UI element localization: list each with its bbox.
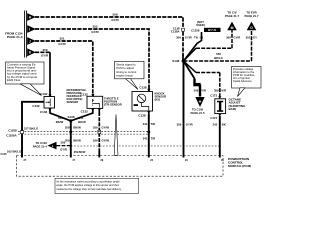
off-page arrow L to page 21-4 bbox=[33, 141, 57, 149]
connector square on TP wire bbox=[98, 130, 101, 133]
wire label 341 T/R lower bbox=[143, 137, 155, 141]
svg-text:BK/W: BK/W bbox=[73, 126, 81, 130]
svg-text:PAGE 21-7: PAGE 21-7 bbox=[244, 14, 259, 18]
svg-text:PAGE 21-5: PAGE 21-5 bbox=[190, 111, 205, 115]
pin wedge TP top bbox=[91, 94, 94, 97]
pointer from TP note to PCM bbox=[114, 115, 118, 156]
svg-text:T/R: T/R bbox=[150, 122, 155, 126]
wire label 359 GY/W above bbox=[93, 126, 109, 130]
svg-text:engine knock.: engine knock. bbox=[116, 74, 134, 78]
svg-text:S138: S138 bbox=[172, 59, 179, 63]
svg-text:C1258: C1258 bbox=[191, 28, 200, 32]
octane adjust shorting bar box bbox=[215, 96, 226, 116]
svg-text:BK/W: BK/W bbox=[56, 120, 64, 124]
in-line connector C1258 dashed rows bbox=[18, 131, 149, 134]
node wire down to PCM bbox=[183, 61, 185, 158]
svg-text:BK/W: BK/W bbox=[78, 120, 86, 124]
callout note knock sensor description bbox=[115, 61, 145, 89]
connector C132 labels (DPFE) bbox=[32, 92, 47, 114]
knock sensor pins bbox=[148, 89, 150, 114]
svg-text:angle, the PCM applies voltage: angle, the PCM applies voltage to this s… bbox=[56, 183, 119, 187]
connector pin K bbox=[27, 48, 36, 56]
splice S138 node bbox=[172, 59, 185, 63]
knock sensor box bbox=[132, 92, 153, 112]
label POWERTRAIN CONTROL MODULE (PCM) bbox=[228, 157, 251, 168]
svg-text:L: L bbox=[52, 144, 54, 148]
connector pin I bbox=[27, 25, 36, 33]
in-line connector C138 on wire 559 bbox=[171, 26, 185, 33]
svg-text:TN: TN bbox=[194, 35, 198, 39]
pin wedge TP bottom left bbox=[91, 109, 94, 112]
wire label 351 GY/R bbox=[58, 37, 66, 47]
svg-text:GY/R: GY/R bbox=[60, 148, 67, 152]
svg-text:BAR): BAR) bbox=[229, 107, 237, 111]
label OCTANE ADJUST (SHORTING BAR) bbox=[229, 97, 246, 111]
svg-text:C138: C138 bbox=[139, 86, 147, 90]
junction dot on KS wire bbox=[147, 131, 150, 134]
pin wedge DPFE top bbox=[48, 94, 51, 97]
svg-text:C132: C132 bbox=[40, 110, 48, 114]
svg-text:C138A: C138A bbox=[171, 30, 180, 34]
svg-text:C132: C132 bbox=[81, 93, 89, 97]
wire 352 to knock sensor bbox=[35, 29, 149, 92]
wire label 559 BK/LG on node bus bbox=[214, 52, 223, 60]
svg-text:C173: C173 bbox=[210, 93, 217, 97]
off-page arrow M to C/V bbox=[225, 11, 240, 31]
svg-text:162 BK/LG: 162 BK/LG bbox=[7, 150, 21, 154]
wire label 359 GY/W below bbox=[93, 138, 109, 142]
svg-text:242: 242 bbox=[213, 123, 218, 127]
pin wedge DPFE bottom bbox=[48, 108, 51, 111]
callout note octane adjust description bbox=[232, 67, 262, 97]
wire label 359 GY/R at arrow L bbox=[60, 140, 67, 151]
DPFE sensor box bbox=[44, 97, 55, 109]
wire label 541 BK/W right bbox=[78, 116, 86, 124]
svg-text:GY/R: GY/R bbox=[91, 30, 99, 34]
octane wire to PCM bbox=[219, 116, 221, 158]
svg-text:359: 359 bbox=[93, 126, 98, 130]
wire label 541 BK/W left bbox=[56, 116, 64, 124]
svg-text:359: 359 bbox=[60, 140, 65, 144]
DPFE bottom pin wire bbox=[50, 108, 71, 121]
wire 351 to TP sensor bbox=[35, 41, 93, 96]
wire 359 to DPFE sensor bbox=[35, 52, 50, 96]
connector pin H bbox=[27, 13, 36, 21]
connector C138 labels (KS) bbox=[138, 86, 147, 118]
black reference box bbox=[204, 28, 221, 32]
sig rtn dashed wire across bbox=[71, 145, 220, 147]
svg-text:S136: S136 bbox=[67, 115, 74, 119]
TP right pin wire to PCM bbox=[98, 108, 100, 157]
knock sensor wire to PCM bbox=[148, 114, 150, 158]
branch wire to arrow M bbox=[184, 30, 233, 61]
wire label 359 BK/W above bbox=[65, 126, 81, 130]
svg-text:C1258: C1258 bbox=[8, 128, 17, 132]
svg-text:J: J bbox=[29, 39, 31, 43]
wire label 359 GY/R bbox=[41, 48, 49, 58]
connector C173 labels bbox=[210, 93, 217, 119]
junction dot on C1258 row bbox=[69, 131, 72, 134]
svg-text:359: 359 bbox=[42, 48, 47, 52]
arrow L wire to splice bbox=[57, 145, 71, 147]
connector bar from C134 bbox=[25, 11, 27, 58]
svg-text:359: 359 bbox=[65, 126, 70, 130]
S136 wire down to PCM bbox=[70, 121, 72, 158]
svg-text:341: 341 bbox=[143, 122, 148, 126]
svg-text:GY/R: GY/R bbox=[233, 36, 240, 40]
svg-text:GY/W: GY/W bbox=[102, 126, 110, 130]
pin wedge KS top bbox=[147, 89, 150, 92]
svg-text:GY/W: GY/W bbox=[102, 138, 110, 142]
wire label 352 GY/R bbox=[91, 25, 99, 35]
wire 559 GY/R from pin H to C138 vertical bbox=[35, 17, 183, 61]
svg-text:BK/LG: BK/LG bbox=[214, 56, 223, 60]
svg-text:GY/R: GY/R bbox=[58, 42, 66, 46]
callout note DPFE description bbox=[6, 62, 45, 96]
svg-text:359: 359 bbox=[226, 36, 231, 40]
svg-text:351: 351 bbox=[59, 37, 64, 41]
svg-text:EGR Flow.: EGR Flow. bbox=[7, 78, 21, 82]
svg-text:352: 352 bbox=[92, 25, 97, 29]
svg-text:MODULE (PCM): MODULE (PCM) bbox=[228, 164, 251, 168]
svg-text:341: 341 bbox=[143, 137, 148, 141]
wire label 352 GY under arrow O bbox=[246, 36, 257, 40]
svg-text:359 BK/W: 359 BK/W bbox=[74, 151, 86, 154]
connector C1258 labels bbox=[6, 128, 17, 137]
wire label 359 BK/W below bbox=[65, 138, 81, 142]
off-page down arrow to C100 bbox=[190, 97, 205, 115]
label THROTTLE POSITION (TP) SENSOR bbox=[104, 96, 122, 106]
svg-text:SENSOR: SENSOR bbox=[67, 100, 79, 104]
note (NOT USED) bbox=[196, 20, 205, 27]
wire label 359 GY/R under arrow M bbox=[226, 36, 240, 40]
label DIFFERENTIAL PRESSURE FEEDBACK EGR (DPFE) SENSOR bbox=[67, 88, 87, 104]
svg-text:359: 359 bbox=[177, 123, 182, 127]
pin wedge TP bottom right bbox=[98, 109, 101, 112]
throttle position sensor box bbox=[87, 96, 103, 108]
branch wire to arrow O bbox=[184, 30, 252, 61]
wire label 242 BK bbox=[213, 123, 226, 127]
svg-text:C132: C132 bbox=[40, 92, 48, 96]
DPFE left pin wire to PCM bbox=[22, 102, 44, 158]
svg-text:C173: C173 bbox=[210, 116, 217, 120]
svg-text:BK/W: BK/W bbox=[73, 138, 81, 142]
TP left pin wire bbox=[71, 108, 93, 120]
branch wire to octane adjust bbox=[184, 61, 220, 96]
pin wedge KS bottom bbox=[147, 111, 150, 114]
svg-text:352: 352 bbox=[246, 36, 251, 40]
svg-text:GY/R: GY/R bbox=[111, 18, 119, 22]
note box TP description bbox=[55, 178, 139, 193]
svg-text:measures the voltage drop to h: measures the voltage drop to help calcul… bbox=[56, 187, 122, 191]
svg-text:C1258A: C1258A bbox=[6, 134, 16, 138]
junction dot arrow L wire bbox=[70, 145, 72, 147]
wire label 359 GY/R at node vertical bbox=[176, 35, 203, 39]
svg-text:GY: GY bbox=[253, 36, 257, 40]
svg-text:359: 359 bbox=[93, 138, 98, 142]
svg-text:O: O bbox=[250, 26, 253, 30]
svg-text:USED): USED) bbox=[196, 23, 205, 27]
svg-text:559: 559 bbox=[112, 13, 117, 17]
PCM box bbox=[17, 156, 224, 177]
svg-text:PAGE 21-7: PAGE 21-7 bbox=[225, 14, 240, 18]
connector C132 labels (TP) bbox=[81, 93, 89, 114]
svg-text:I: I bbox=[29, 27, 30, 31]
splice S136 bbox=[67, 115, 74, 122]
svg-text:PAGE 21-4: PAGE 21-4 bbox=[33, 145, 48, 149]
svg-text:C138: C138 bbox=[138, 113, 146, 117]
svg-text:GY/R: GY/R bbox=[185, 35, 192, 39]
wire label 359 GY/R on node wire bbox=[177, 123, 193, 127]
svg-text:T/R: T/R bbox=[151, 137, 156, 141]
wire label 341 T/R upper bbox=[143, 122, 155, 126]
branch wire to down arrow bbox=[184, 61, 195, 79]
svg-text:157 BK/LG: 157 BK/LG bbox=[24, 126, 38, 130]
svg-text:W-7 21: W-7 21 bbox=[208, 28, 217, 32]
svg-text:GY/R: GY/R bbox=[41, 54, 49, 58]
label FROM C134 PAGE 21-3 bbox=[5, 31, 23, 39]
wire label 559 GY/R bbox=[111, 13, 119, 23]
svg-text:BK: BK bbox=[222, 123, 226, 127]
svg-text:M: M bbox=[231, 26, 234, 30]
connector pin square on left wire bbox=[20, 131, 23, 134]
label KNOCK SENSOR (KS) bbox=[155, 92, 167, 102]
svg-text:PAGE 21-3: PAGE 21-3 bbox=[7, 35, 23, 39]
svg-text:GY/R: GY/R bbox=[186, 123, 193, 127]
svg-text:C132: C132 bbox=[32, 104, 40, 108]
svg-text:359: 359 bbox=[176, 35, 181, 39]
connector C1258 pin bbox=[191, 28, 200, 32]
svg-text:349 GY/R: 349 GY/R bbox=[194, 88, 206, 92]
svg-text:359: 359 bbox=[65, 138, 70, 142]
off-page arrow O to EVR bbox=[244, 11, 259, 31]
svg-text:359 GY/R: 359 GY/R bbox=[214, 88, 226, 92]
svg-text:C125: C125 bbox=[1, 153, 8, 156]
svg-text:C132: C132 bbox=[81, 110, 89, 114]
svg-text:(TP) SENSOR: (TP) SENSOR bbox=[104, 102, 122, 106]
svg-text:As the resistance varies accor: As the resistance varies according to ac… bbox=[56, 179, 119, 183]
connector pin J bbox=[27, 37, 36, 45]
branch wire to C1258 black box bbox=[184, 32, 202, 61]
PCM pin numbers bbox=[24, 159, 225, 162]
svg-text:Spark Advance.: Spark Advance. bbox=[233, 79, 252, 83]
svg-text:(KS): (KS) bbox=[155, 98, 161, 102]
